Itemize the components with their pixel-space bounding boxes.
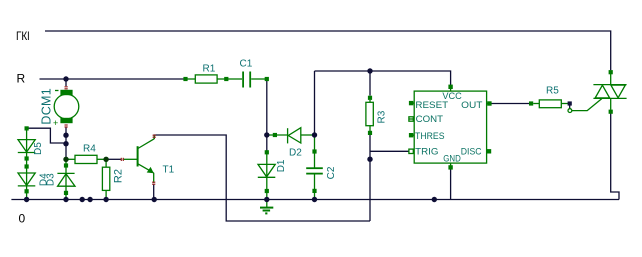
junction node R-motor xyxy=(63,76,68,81)
pin mark T1 base xyxy=(121,158,122,161)
junction node rail D4 xyxy=(24,197,29,202)
svg-text:D5: D5 xyxy=(33,142,44,155)
svg-text:0: 0 xyxy=(19,212,26,226)
wire D2 node up to VCC rail xyxy=(314,71,316,135)
motor DCM1 xyxy=(39,88,79,128)
pin DISC xyxy=(487,149,492,153)
pin mark motor top xyxy=(65,86,68,87)
pin mark T1 collector xyxy=(153,135,156,136)
junction node VCC-R3 xyxy=(367,68,372,73)
wire R line xyxy=(40,78,186,80)
wire triac gate xyxy=(572,99,602,111)
svg-text:R: R xyxy=(17,72,26,86)
pin TRIG xyxy=(409,149,413,153)
svg-text:R2: R2 xyxy=(113,169,125,183)
IC U1 555 timer xyxy=(414,91,486,164)
wire R3 top lead xyxy=(369,71,371,96)
wire crossover bottom xyxy=(154,135,370,221)
wire top rail GK xyxy=(45,31,611,70)
pin mark T1 emitter xyxy=(152,182,155,183)
triac xyxy=(593,70,626,114)
junction node rail GND seam xyxy=(432,197,437,202)
wire R5 corner down xyxy=(569,105,571,109)
svg-text:C2: C2 xyxy=(326,166,337,179)
triac gate node circle xyxy=(568,109,572,113)
pin CONT xyxy=(409,117,414,121)
diode D3 xyxy=(45,159,75,199)
junction node R4 right xyxy=(103,157,108,162)
svg-text:TRIG: TRIG xyxy=(415,147,438,158)
wire motor bottom to R4 node xyxy=(65,128,67,160)
junction node rail seam 1 xyxy=(80,197,85,202)
svg-text:D1: D1 xyxy=(276,159,287,172)
transistor T1 xyxy=(123,136,175,184)
resistor R5 xyxy=(529,86,572,108)
svg-text:C1: C1 xyxy=(240,59,253,70)
svg-text:RESET: RESET xyxy=(415,100,448,111)
wire T1 base xyxy=(106,158,121,160)
resistor R3 xyxy=(366,96,388,135)
junction node D2 left xyxy=(264,132,269,137)
pin RESET xyxy=(409,101,414,105)
wire OUT to R5 xyxy=(491,103,529,105)
junction node TRIG-R3 xyxy=(367,157,372,162)
wire triac bottom down xyxy=(611,113,619,200)
svg-text:T1: T1 xyxy=(163,165,175,176)
wire GND lead to rail xyxy=(450,170,452,200)
svg-text:GND: GND xyxy=(443,153,461,164)
junction node rail seam 2 xyxy=(87,197,92,202)
capacitor C1 xyxy=(228,59,269,88)
junction node motor bottom 1 xyxy=(63,133,68,138)
svg-text:CONT: CONT xyxy=(416,114,444,125)
junction node D2 right xyxy=(312,132,317,137)
svg-text:+: + xyxy=(53,118,58,128)
wire VCC rail xyxy=(315,71,451,89)
junction node rail R2 xyxy=(103,197,108,202)
ground xyxy=(260,200,273,214)
svg-text:D3: D3 xyxy=(45,173,56,186)
diode D5 xyxy=(18,126,44,199)
diode D4 xyxy=(18,164,50,193)
svg-text:R5: R5 xyxy=(546,86,559,97)
svg-text:DCM1: DCM1 xyxy=(39,88,53,125)
pin GND xyxy=(448,163,452,169)
pin mark motor bottom xyxy=(65,124,68,125)
diode D2 xyxy=(268,128,313,159)
capacitor C2 xyxy=(306,137,337,200)
wire R3 bottom to crossover xyxy=(369,135,371,221)
svg-text:OUT: OUT xyxy=(461,100,482,111)
svg-text:DISC: DISC xyxy=(461,147,482,158)
junction node rail D3 xyxy=(63,197,68,202)
svg-text:D2: D2 xyxy=(289,148,302,159)
resistor R4 xyxy=(66,144,106,164)
junction node rail C2 xyxy=(312,197,317,202)
svg-text:ГКl: ГКl xyxy=(16,29,30,43)
junction node rail ground xyxy=(264,197,269,202)
resistor R2 xyxy=(102,159,124,199)
pin OUT xyxy=(487,101,492,105)
wire C1 to D2 node vertical xyxy=(266,79,268,152)
svg-text:R1: R1 xyxy=(203,64,216,75)
wire T1 emitter to rail xyxy=(153,184,155,200)
wire bottom rail 0 xyxy=(11,199,619,201)
wire D5 top loop xyxy=(29,128,64,143)
pin VCC xyxy=(448,85,452,92)
pin THRES xyxy=(409,133,414,137)
resistor R1 xyxy=(183,64,228,84)
svg-text:R4: R4 xyxy=(83,144,96,155)
svg-text:THRES: THRES xyxy=(415,131,445,142)
junction node R4 left xyxy=(63,157,68,162)
diode D1 xyxy=(258,150,287,199)
svg-text:R3: R3 xyxy=(377,110,388,123)
junction node motor bottom 2 xyxy=(63,141,68,146)
wire TRIG xyxy=(370,150,409,152)
junction node rail T1 emitter xyxy=(152,197,157,202)
wire motor top xyxy=(65,79,67,86)
